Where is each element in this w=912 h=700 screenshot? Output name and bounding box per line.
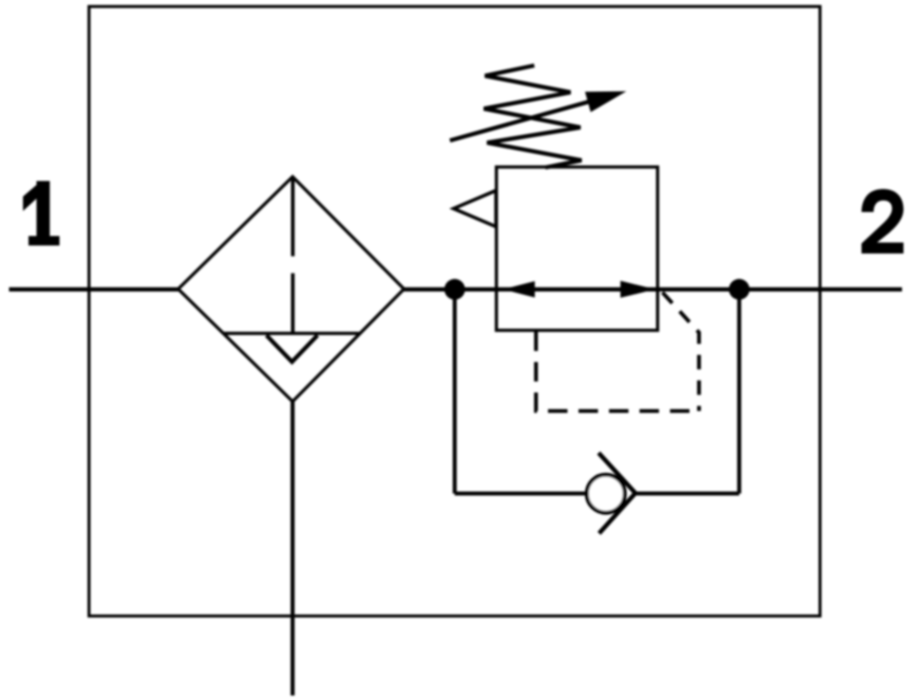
condensate drain V symbol [267, 335, 318, 362]
pilot control dashed line, left drop and bottom run [536, 332, 699, 412]
filter separator chord [224, 332, 360, 335]
filter with water separator: diamond body [178, 177, 404, 402]
check valve ball circle [587, 475, 625, 513]
wire: main flow line, from filter outlet through regulator to port 2 [403, 287, 902, 291]
regulator relief vent triangle [454, 191, 496, 227]
regulator flow arrowhead left [503, 281, 535, 297]
node: junction dot left (regulator inlet tap) [444, 279, 465, 300]
wire: bypass left arm [453, 289, 457, 493]
pressure regulator body [496, 167, 657, 330]
regulator spring [484, 66, 582, 168]
wire: bypass bottom line right of check valve [635, 492, 740, 496]
regulator adjustment arrow shaft [450, 99, 598, 140]
wire: main flow line, left stub from port 1 to filter inlet [9, 287, 179, 291]
wire: bypass bottom line left of check valve [455, 492, 587, 496]
pilot control dashed line, diagonal tap and right drop [663, 293, 700, 412]
enclosure border of service unit [89, 7, 820, 617]
node: junction dot right (regulator outlet tap) [729, 279, 750, 300]
regulator adjustment arrowhead [585, 91, 626, 112]
check valve seat chevron [599, 453, 636, 534]
wire: bypass right arm [737, 289, 741, 493]
filter element dashed centre line [291, 178, 295, 334]
port 1 label [23, 181, 60, 246]
wire: condensate drain line [291, 402, 295, 696]
regulator flow arrowhead right [620, 281, 655, 298]
port 2 label [862, 189, 904, 254]
